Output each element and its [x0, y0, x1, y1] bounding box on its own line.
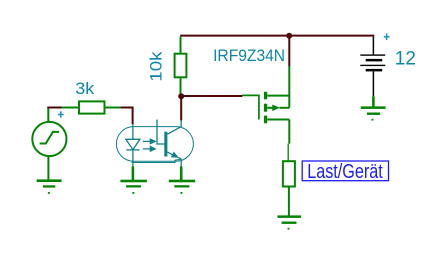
battery B1 plates: [360, 54, 385, 71]
plus sign at source: [58, 111, 64, 117]
battery top lead: [372, 37, 374, 55]
svg-text:Last/Gerät: Last/Gerät: [307, 161, 383, 183]
phototransistor base pin: [157, 120, 165, 145]
MOSFET Q2 gate lead: [242, 95, 259, 119]
wire V1 to R1: [47, 107, 62, 109]
ground at load: [277, 215, 301, 229]
wire R1 to optocoupler LED: [121, 108, 133, 125]
svg-text:12: 12: [395, 49, 416, 70]
ground at LED cathode: [120, 180, 146, 194]
MOSFET drain lead: [267, 120, 289, 162]
optocoupler LED D1: [126, 124, 140, 167]
load resistor R3: [283, 161, 295, 216]
node A junction dot: [178, 93, 184, 99]
ground at battery: [361, 106, 386, 120]
resistor R2 10k: [175, 37, 187, 94]
plus sign at battery: [384, 33, 390, 40]
ground at source: [37, 179, 62, 193]
signal source V1: [32, 107, 66, 180]
battery bottom lead: [372, 71, 374, 96]
battery ground stem: [372, 96, 375, 107]
phototransistor Q1: [164, 120, 181, 167]
MOSFET body lead with arrow: [267, 105, 289, 112]
node B junction dot: [286, 33, 292, 39]
label frame Last/Geraet: [302, 161, 388, 181]
svg-text:3k: 3k: [75, 80, 95, 98]
resistor R1 3k: [62, 101, 122, 113]
ground at emitter: [169, 180, 195, 194]
wire node B down to MOSFET source: [288, 37, 290, 67]
wire node A to collector: [180, 96, 182, 120]
wire node A to gate: [181, 95, 242, 97]
svg-text:10k: 10k: [147, 51, 165, 82]
emitter pin: [180, 167, 183, 181]
top supply rail wire: [180, 35, 374, 37]
MOSFET source lead: [267, 66, 289, 108]
LED cathode pin: [132, 167, 135, 181]
svg-text:IRF9Z34N: IRF9Z34N: [213, 46, 285, 65]
optocoupler U1 package: [116, 127, 193, 163]
light arrow 1: [143, 139, 156, 144]
MOSFET channel bars: [264, 92, 267, 123]
light arrow 2: [143, 147, 156, 152]
